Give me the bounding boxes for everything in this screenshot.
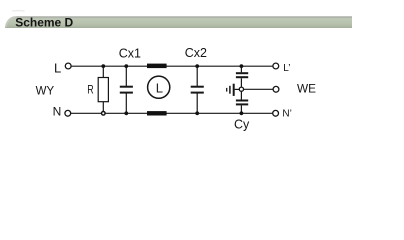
- junction dot Cx2 bottom: [195, 111, 199, 115]
- header tab top edge line: [17, 16, 353, 18]
- capacitor Cx2 plates: [191, 87, 204, 93]
- header tab left corner highlight: [6, 17, 16, 27]
- junction node R bottom (open): [102, 112, 106, 116]
- ground chassis bar long: [233, 84, 235, 96]
- svg-text:Scheme D: Scheme D: [15, 16, 73, 30]
- header highlight wisp: [12, 10, 25, 13]
- capacitor Cx1 bottom lead: [125, 93, 127, 113]
- capacitor Cy upper plates: [236, 73, 248, 77]
- ground chassis bar short: [226, 88, 228, 92]
- junction dot Cx2 top: [195, 64, 199, 68]
- junction dot Cy bottom: [240, 111, 244, 115]
- svg-text:L’: L’: [283, 63, 290, 74]
- node ground junction circle: [239, 87, 243, 91]
- inductor L choke winding top: [147, 64, 167, 69]
- header tab bar: [5, 16, 352, 28]
- svg-text:N’: N’: [282, 108, 291, 119]
- capacitor Cy lower plates: [236, 101, 248, 105]
- wire ground node to Cy lower plate: [240, 91, 242, 99]
- capacitor Cx2 top lead: [196, 66, 198, 86]
- capacitor Cx2 bottom lead: [196, 93, 198, 113]
- inductor L core circle: [148, 76, 170, 98]
- svg-text:Cx1: Cx1: [119, 46, 141, 60]
- terminal N: [65, 110, 71, 116]
- junction dot Cx1 top: [124, 64, 128, 68]
- svg-text:L: L: [156, 80, 163, 95]
- ground chassis bar medium: [229, 86, 231, 94]
- resistor R body: [98, 78, 108, 102]
- terminal N': [273, 110, 279, 116]
- svg-text:R: R: [87, 83, 94, 97]
- svg-text:N: N: [53, 105, 62, 119]
- wire resistor bottom lead: [102, 102, 104, 114]
- svg-text:L: L: [54, 60, 61, 75]
- capacitor Cx1 plates: [120, 87, 133, 93]
- inductor L choke winding bottom: [147, 111, 167, 115]
- terminal L: [65, 63, 71, 69]
- terminal WE: [273, 86, 279, 92]
- capacitor Cy lower bottom lead: [240, 105, 242, 113]
- svg-text:Cx2: Cx2: [185, 46, 207, 60]
- wire ground node to ground symbol: [235, 88, 240, 90]
- capacitor Cx1 top lead: [125, 66, 127, 86]
- wire Cy upper plate to ground node: [240, 78, 242, 87]
- wire resistor top lead: [102, 66, 104, 77]
- wire middle rail ground node to WE terminal: [243, 88, 273, 90]
- terminal L': [273, 63, 279, 69]
- junction dot Cx1 bottom: [124, 111, 128, 115]
- wire top rail L to L': [71, 65, 273, 67]
- wire bottom rail N to N': [71, 112, 273, 114]
- junction dot R top: [101, 64, 105, 68]
- svg-text:WE: WE: [297, 82, 316, 96]
- junction dot Cy top: [240, 64, 244, 68]
- svg-text:Cy: Cy: [234, 117, 250, 131]
- svg-text:WY: WY: [36, 86, 55, 98]
- capacitor Cy upper lead: [240, 66, 242, 72]
